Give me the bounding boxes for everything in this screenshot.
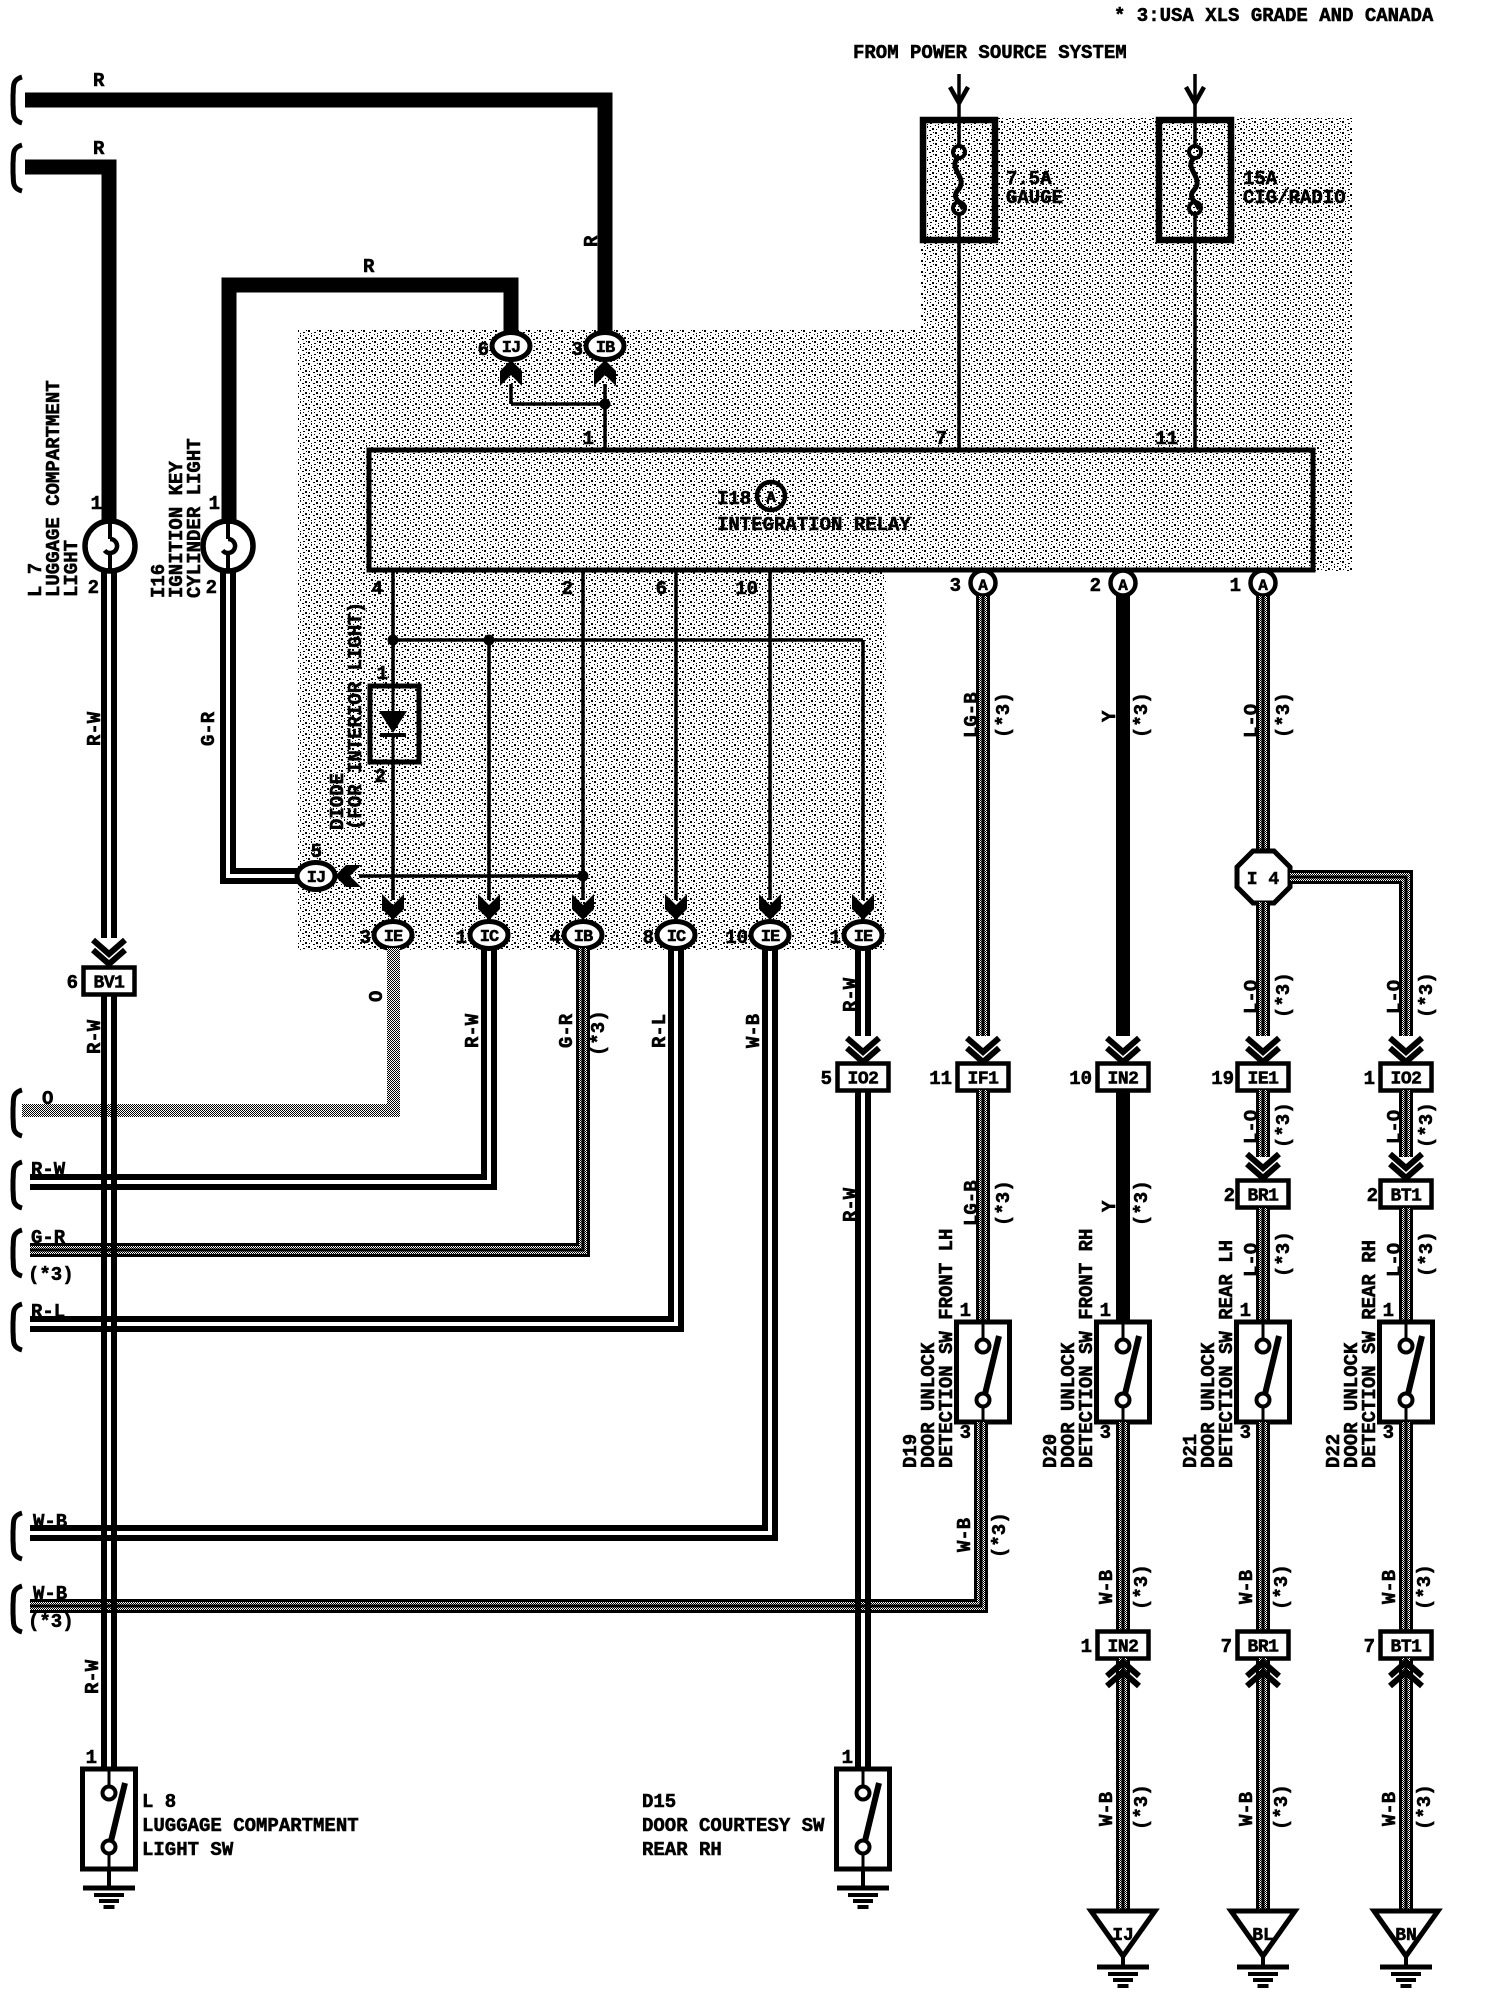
connector 1 IE <box>830 922 882 950</box>
svg-text:1: 1 <box>960 1300 971 1322</box>
svg-text:1: 1 <box>91 493 102 515</box>
svg-text:8: 8 <box>643 927 654 949</box>
ground point BN <box>1374 1911 1438 1967</box>
svg-text:G-R: G-R <box>198 711 220 746</box>
svg-text:R: R <box>363 256 375 278</box>
svg-text:IN2: IN2 <box>1108 1638 1139 1658</box>
svg-text:IC: IC <box>667 928 686 947</box>
svg-text:* 3:USA XLS GRADE AND CANADA: * 3:USA XLS GRADE AND CANADA <box>1114 5 1434 27</box>
svg-text:2: 2 <box>375 766 386 788</box>
svg-text:BN: BN <box>1395 1926 1417 1946</box>
label D15 <box>642 1791 825 1861</box>
svg-text:LUGGAGE COMPARTMENT: LUGGAGE COMPARTMENT <box>142 1815 359 1837</box>
svg-text:(FOR INTERIOR LIGHT): (FOR INTERIOR LIGHT) <box>345 602 367 830</box>
svg-text:(*3): (*3) <box>1414 1784 1436 1830</box>
wire L-O (*3) BR1 to D21 <box>1241 1208 1295 1322</box>
connector 5 IO2 <box>821 1064 889 1091</box>
svg-text:BT1: BT1 <box>1391 1638 1423 1658</box>
relay pin 10 wire down to IE <box>735 570 770 900</box>
svg-text:O: O <box>42 1088 53 1110</box>
wire L-O (*3) IE1 to BR1 <box>1241 1090 1295 1157</box>
svg-text:11: 11 <box>929 1068 952 1090</box>
svg-text:BT1: BT1 <box>1391 1187 1423 1207</box>
switch D15 door courtesy sw rear RH <box>837 1747 890 1869</box>
svg-text:11: 11 <box>1155 428 1178 450</box>
svg-text:3: 3 <box>960 1422 971 1444</box>
svg-text:1: 1 <box>209 493 220 515</box>
svg-text:Y: Y <box>1099 1200 1121 1212</box>
svg-text:D15: D15 <box>642 1791 676 1813</box>
connector 11 IF1 <box>929 1064 1008 1091</box>
left connector W-B (*3) <box>13 1583 74 1633</box>
arrow into IB pin 4 <box>572 894 594 920</box>
wire Y (*3) thick from A to IN2 <box>1099 596 1153 1036</box>
svg-text:DETECTION SW FRONT LH: DETECTION SW FRONT LH <box>936 1229 958 1468</box>
ground symbol D15 <box>837 1869 889 1907</box>
svg-text:(*3): (*3) <box>1131 692 1153 738</box>
svg-text:3: 3 <box>1240 1422 1251 1444</box>
wire R-W from BV1 to L8 <box>82 995 114 1769</box>
svg-text:IJ: IJ <box>1112 1926 1134 1946</box>
label D21 <box>1180 1240 1238 1468</box>
svg-text:19: 19 <box>1211 1068 1234 1090</box>
wire L-O (*3) IO2 to BT1 <box>1384 1090 1438 1157</box>
arrow up into connector above ground BL <box>1247 1662 1279 1686</box>
vertical label R on IB drop <box>581 235 603 247</box>
svg-text:1: 1 <box>1240 1300 1251 1322</box>
svg-text:3: 3 <box>1100 1422 1111 1444</box>
svg-text:R-L: R-L <box>649 1014 671 1048</box>
left connector R-L <box>13 1301 65 1350</box>
left connector W-B <box>13 1511 67 1559</box>
left connector G-R (*3) <box>13 1227 74 1286</box>
arrow into IO2 (right) <box>1390 1038 1422 1062</box>
svg-text:R: R <box>93 70 105 92</box>
connector 6 IJ (top) <box>478 333 530 362</box>
arrow into IO2 <box>847 1038 879 1062</box>
svg-text:L-O: L-O <box>1241 1110 1263 1144</box>
svg-text:BL: BL <box>1252 1926 1274 1946</box>
relay pin 3 connector A <box>950 571 996 598</box>
svg-text:DETECTION SW FRONT RH: DETECTION SW FRONT RH <box>1076 1229 1098 1468</box>
relay pin 2 connector A <box>1090 571 1136 598</box>
svg-text:(*3): (*3) <box>993 1180 1015 1226</box>
arrow into IJ <box>500 360 522 386</box>
svg-text:IE1: IE1 <box>1248 1070 1280 1090</box>
svg-text:2: 2 <box>1224 1185 1235 1207</box>
left connector O <box>13 1088 53 1136</box>
ground symbol BL <box>1237 1967 1289 1986</box>
svg-text:R: R <box>93 138 105 160</box>
connector 5 IJ (left) <box>297 841 335 890</box>
svg-text:W-B: W-B <box>954 1518 976 1552</box>
svg-text:R-W: R-W <box>840 1187 862 1222</box>
arrow into IC pin 8 <box>665 894 687 920</box>
wire W-B from IE10 to left connector <box>30 948 775 1538</box>
svg-text:1: 1 <box>830 927 841 949</box>
svg-text:6: 6 <box>67 972 78 994</box>
ground point BL <box>1231 1911 1295 1967</box>
svg-text:CIG/RADIO: CIG/RADIO <box>1243 187 1346 209</box>
svg-text:(*3): (*3) <box>1273 1102 1295 1148</box>
arrow into BR1 <box>1247 1154 1279 1178</box>
wire IJ/IB joint to relay pin 1 <box>511 384 611 450</box>
svg-text:L-O: L-O <box>1384 1110 1406 1144</box>
svg-text:A: A <box>978 577 988 595</box>
svg-text:A: A <box>1118 577 1128 595</box>
svg-text:W-B: W-B <box>1236 1792 1258 1826</box>
svg-text:2: 2 <box>1367 1185 1378 1207</box>
connector 4 IB <box>550 922 602 950</box>
wire R-W from L7 to BV1 <box>84 571 114 938</box>
wire R-L from IC8 to left connector <box>30 948 681 1329</box>
svg-text:R-L: R-L <box>31 1301 65 1323</box>
svg-text:6: 6 <box>478 339 489 361</box>
relay pin 4 wire to diode <box>372 570 399 686</box>
svg-text:R-W: R-W <box>84 1019 106 1054</box>
svg-text:(*3): (*3) <box>993 692 1015 738</box>
svg-text:W-B: W-B <box>743 1014 765 1048</box>
svg-text:(*3): (*3) <box>1416 972 1438 1018</box>
wire Y (*3) IN2 to D20 <box>1099 1090 1153 1322</box>
svg-text:(*3): (*3) <box>1131 1564 1153 1610</box>
arrow up into connector above ground BN <box>1390 1662 1422 1686</box>
svg-text:5: 5 <box>311 841 322 863</box>
arrow into BV1 <box>93 940 125 964</box>
svg-text:CYLINDER LIGHT: CYLINDER LIGHT <box>184 438 206 598</box>
svg-text:(*3): (*3) <box>28 1264 74 1286</box>
branch wire to IC pin 1 <box>487 640 491 900</box>
svg-text:2: 2 <box>88 577 99 599</box>
svg-text:BR1: BR1 <box>1248 1638 1280 1658</box>
wire L-O (*3) I4 to IE1 <box>1241 902 1295 1036</box>
svg-text:1: 1 <box>1364 1068 1375 1090</box>
svg-text:10: 10 <box>1069 1068 1092 1090</box>
wire IJ to pin2 line junction <box>359 874 583 878</box>
connector 2 BT1 <box>1367 1181 1432 1208</box>
svg-text:IE: IE <box>761 928 780 947</box>
svg-text:LIGHT SW: LIGHT SW <box>142 1839 234 1861</box>
wire R (second) from connector to L7 <box>13 138 109 521</box>
svg-text:R: R <box>581 235 603 247</box>
wire R (top) from connector to IB <box>13 70 605 334</box>
svg-text:1: 1 <box>456 927 467 949</box>
svg-text:(*3): (*3) <box>1416 1102 1438 1148</box>
svg-text:W-B: W-B <box>1379 1570 1401 1604</box>
svg-text:LIGHT: LIGHT <box>61 540 83 597</box>
svg-text:10: 10 <box>735 578 758 600</box>
shaded harness region (below relay) <box>298 572 886 950</box>
connector 8 IC <box>643 922 695 950</box>
wire LG-B (*3) from A to IF1 <box>977 596 989 1036</box>
svg-text:(*3): (*3) <box>1273 692 1295 738</box>
arrow into BT1 <box>1390 1154 1422 1178</box>
fuse 15A CIG/RADIO <box>1159 120 1346 240</box>
shaded harness region (middle band behind relay) <box>298 330 921 572</box>
label L8 <box>142 1791 359 1861</box>
svg-text:4: 4 <box>550 927 561 949</box>
wire R-W from IC1 to left connector <box>30 948 494 1187</box>
svg-text:GAUGE: GAUGE <box>1006 187 1063 209</box>
svg-text:L-O: L-O <box>1241 704 1263 738</box>
wire R-W from IO2 to D15 <box>840 1090 868 1769</box>
svg-text:5: 5 <box>821 1068 832 1090</box>
connector 6 BV1 <box>67 968 135 995</box>
arrow into IB <box>594 360 616 386</box>
label L7 <box>25 380 83 597</box>
svg-text:W-B: W-B <box>1096 1792 1118 1826</box>
svg-text:O: O <box>366 991 388 1002</box>
svg-text:IO2: IO2 <box>848 1070 879 1090</box>
wire W-B (*3) to ground BL <box>1236 1658 1293 1911</box>
label DIODE (FOR INTERIOR LIGHT) <box>327 602 367 830</box>
svg-text:(*3): (*3) <box>1131 1180 1153 1226</box>
svg-text:FROM POWER SOURCE SYSTEM: FROM POWER SOURCE SYSTEM <box>853 42 1127 64</box>
connector 7 BT1 (bottom) <box>1364 1632 1432 1659</box>
relay I18 INTEGRATION RELAY <box>369 450 1313 570</box>
svg-text:W-B: W-B <box>1096 1570 1118 1604</box>
svg-text:(*3): (*3) <box>1271 1564 1293 1610</box>
label I16 <box>148 438 206 598</box>
wire L-O (*3) from A to I4 <box>1241 596 1295 851</box>
label FROM POWER SOURCE SYSTEM <box>853 42 1127 64</box>
svg-text:7: 7 <box>936 428 947 450</box>
connector 10 IN2 <box>1069 1064 1148 1091</box>
svg-text:2: 2 <box>562 578 573 600</box>
svg-text:4: 4 <box>372 578 383 600</box>
svg-text:INTEGRATION RELAY: INTEGRATION RELAY <box>717 514 911 536</box>
svg-text:IJ: IJ <box>307 869 325 888</box>
svg-text:IF1: IF1 <box>968 1070 1000 1090</box>
relay pin 1 connector A <box>1230 571 1276 598</box>
arrow into IF1 <box>967 1038 999 1062</box>
connector 1 IN2 (bottom) <box>1081 1632 1149 1659</box>
relay pin 6 wire down to IC <box>656 570 676 900</box>
svg-text:6: 6 <box>656 578 667 600</box>
svg-text:R-W: R-W <box>840 977 862 1012</box>
svg-text:1: 1 <box>1100 1300 1111 1322</box>
svg-text:L 8: L 8 <box>142 1791 176 1813</box>
svg-text:IC: IC <box>480 928 499 947</box>
power feed arrow to fuse 15A <box>1186 74 1204 120</box>
svg-text:1: 1 <box>86 1747 97 1769</box>
connector I 4 (octagon) <box>1237 851 1290 903</box>
ground symbol IJ <box>1097 1967 1149 1986</box>
svg-text:3: 3 <box>1383 1422 1394 1444</box>
svg-text:1: 1 <box>377 663 388 685</box>
wire fuse 7.5A to relay pin 7 <box>936 240 959 450</box>
connector 1 IO2 (right) <box>1364 1064 1432 1091</box>
arrow into IE pin 1 <box>852 894 874 920</box>
svg-text:R-W: R-W <box>84 711 106 746</box>
wire L-O (*3) I4 branch right to IO2 <box>1290 871 1438 1036</box>
svg-text:(*3): (*3) <box>28 1611 74 1633</box>
svg-text:(*3): (*3) <box>1273 972 1295 1018</box>
wire W-B (*3) D21 to BR1 <box>1236 1422 1293 1632</box>
wire LG-B (*3) IF1 to D19 <box>961 1090 1015 1322</box>
svg-text:IE: IE <box>384 928 403 947</box>
svg-text:1: 1 <box>583 428 594 450</box>
svg-text:2: 2 <box>206 577 217 599</box>
svg-text:A: A <box>1258 577 1268 595</box>
wire G-R (*3) from IB4 to left connector <box>30 948 610 1256</box>
svg-text:L-O: L-O <box>1384 980 1406 1014</box>
svg-text:IB: IB <box>574 928 593 947</box>
switch D22 door unlock <box>1380 1300 1433 1444</box>
wire R from I16 to IJ <box>229 256 511 521</box>
left connector R-W <box>13 1159 66 1208</box>
svg-text:IE: IE <box>854 928 873 947</box>
label D22 <box>1323 1240 1381 1468</box>
wire R-W from IE1 to connector IO2 <box>840 948 868 1036</box>
svg-text:REAR RH: REAR RH <box>642 1839 722 1861</box>
connector 2 BR1 <box>1224 1181 1289 1208</box>
wire W-B (*3) D20 to IN2 <box>1096 1422 1153 1632</box>
svg-text:3: 3 <box>950 575 961 597</box>
svg-text:G-R: G-R <box>556 1013 578 1048</box>
svg-text:3: 3 <box>360 927 371 949</box>
svg-text:Y: Y <box>1099 710 1121 722</box>
svg-text:IB: IB <box>596 339 615 358</box>
svg-text:A: A <box>766 489 776 507</box>
connector 19 IE1 <box>1211 1064 1288 1091</box>
svg-text:1: 1 <box>842 1747 853 1769</box>
switch D20 door unlock <box>1097 1300 1150 1444</box>
svg-text:(*3): (*3) <box>1416 1231 1438 1277</box>
wire W-B (*3) to ground IJ <box>1096 1658 1153 1911</box>
svg-text:W-B: W-B <box>1236 1570 1258 1604</box>
svg-text:1: 1 <box>1230 575 1241 597</box>
wire fuse 15A to relay pin 11 <box>1155 240 1195 450</box>
ground point IJ <box>1091 1911 1155 1967</box>
svg-text:LG-B: LG-B <box>961 1180 983 1226</box>
svg-text:IO2: IO2 <box>1391 1070 1422 1090</box>
svg-text:R-W: R-W <box>462 1013 484 1048</box>
svg-text:W-B: W-B <box>1379 1792 1401 1826</box>
arrow into IE pin 10 <box>759 894 781 920</box>
svg-text:DETECTION SW REAR LH: DETECTION SW REAR LH <box>1216 1240 1238 1468</box>
ground symbol L8 <box>83 1869 135 1907</box>
label D20 <box>1040 1229 1098 1468</box>
arrow up into connector above ground IJ <box>1107 1662 1139 1686</box>
diode (for interior light) <box>370 663 419 788</box>
wire L-O (*3) BT1 to D22 <box>1384 1208 1438 1322</box>
arrow into IC pin 1 <box>478 894 500 920</box>
lamp L7 luggage compartment light <box>85 493 135 599</box>
labels LG-B (*3) <box>961 692 1015 738</box>
svg-text:7: 7 <box>1364 1636 1375 1658</box>
svg-text:I18: I18 <box>717 488 751 510</box>
switch D19 door unlock <box>957 1300 1010 1444</box>
svg-text:(*3): (*3) <box>1271 1784 1293 1830</box>
svg-text:G-R: G-R <box>31 1227 66 1249</box>
wire W-B (*3) D22 to BT1 <box>1379 1422 1436 1632</box>
svg-text:L-O: L-O <box>1241 1243 1263 1277</box>
svg-text:W-B: W-B <box>33 1583 67 1605</box>
relay pin 2 wire down to IB <box>562 570 589 900</box>
connector 10 IE <box>725 922 789 950</box>
connector 3 IB (top) <box>572 333 624 362</box>
wire W-B (*3) to ground BN <box>1379 1658 1436 1911</box>
svg-text:IN2: IN2 <box>1108 1070 1139 1090</box>
connector 1 IC <box>456 922 508 950</box>
fuse 7.5A GAUGE <box>923 120 1063 240</box>
svg-text:(*3): (*3) <box>1414 1564 1436 1610</box>
svg-text:1: 1 <box>1383 1300 1394 1322</box>
note *3: USA XLS GRADE AND CANADA <box>1114 5 1434 27</box>
wire O from IE3 to left connector <box>22 948 400 1117</box>
svg-text:(*3): (*3) <box>588 1010 610 1056</box>
ground symbol BN <box>1380 1967 1432 1986</box>
connector 7 BR1 (bottom) <box>1221 1632 1289 1659</box>
svg-text:IJ: IJ <box>502 339 520 358</box>
wire W-B (*3) D19 to left connector <box>30 1422 1011 1612</box>
switch D21 door unlock <box>1237 1300 1290 1444</box>
wire diode to IE pin 3 <box>391 762 395 900</box>
branch wire to IE pin 1 (right) <box>861 640 865 900</box>
connector 3 IE <box>360 922 412 950</box>
svg-text:(*3): (*3) <box>1131 1784 1153 1830</box>
internal bus from pin 4 node <box>393 635 863 646</box>
svg-text:W-B: W-B <box>33 1511 67 1533</box>
power feed arrow to fuse 7.5A <box>950 74 968 120</box>
svg-text:LG-B: LG-B <box>961 692 983 738</box>
svg-text:R-W: R-W <box>31 1159 66 1181</box>
svg-text:R-W: R-W <box>82 1659 104 1694</box>
svg-text:(*3): (*3) <box>1273 1231 1295 1277</box>
wire G-R from I16 pin 2 <box>198 571 299 881</box>
svg-text:L-O: L-O <box>1241 980 1263 1014</box>
svg-text:7: 7 <box>1221 1636 1232 1658</box>
svg-text:L-O: L-O <box>1384 1243 1406 1277</box>
arrow into IE pin 3 <box>382 894 404 920</box>
switch L8 luggage compartment light sw <box>83 1747 136 1869</box>
shaded harness region (top, around fuses) <box>921 118 1353 572</box>
arrow into IN2 <box>1107 1038 1139 1062</box>
svg-text:3: 3 <box>572 339 583 361</box>
arrow into IE1 <box>1247 1038 1279 1062</box>
arrow into IJ (left) <box>335 865 361 887</box>
label D19 <box>900 1229 958 1468</box>
lamp I16 ignition key cylinder light <box>203 493 253 599</box>
svg-text:BV1: BV1 <box>94 974 126 994</box>
svg-text:(*3): (*3) <box>989 1512 1011 1558</box>
svg-text:I 4: I 4 <box>1247 870 1280 890</box>
svg-text:DOOR COURTESY SW: DOOR COURTESY SW <box>642 1815 825 1837</box>
svg-text:2: 2 <box>1090 575 1101 597</box>
svg-text:DETECTION SW REAR RH: DETECTION SW REAR RH <box>1359 1240 1381 1468</box>
svg-text:BR1: BR1 <box>1248 1187 1280 1207</box>
svg-text:10: 10 <box>725 927 748 949</box>
svg-text:1: 1 <box>1081 1636 1092 1658</box>
